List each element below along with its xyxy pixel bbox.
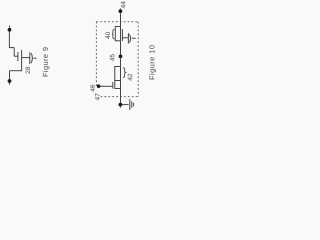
terminal stub top (Fig 9 input) <box>9 26 11 28</box>
svg-text:45: 45 <box>109 54 116 62</box>
svg-text:42: 42 <box>127 73 134 81</box>
terminal stub (node 44) <box>119 8 121 9</box>
svg-text:28: 28 <box>25 66 32 74</box>
stub below node 47 <box>119 106 121 107</box>
lead right of arc to box edge <box>132 37 136 39</box>
terminal stub bottom <box>9 83 11 85</box>
lead right of arc <box>33 57 36 59</box>
svg-text:47: 47 <box>95 93 102 101</box>
ground bar short <box>133 103 135 107</box>
node dot 47 <box>119 103 123 107</box>
gate lead of transistor 28 <box>14 55 17 57</box>
wire from transistor 40 down to node 45 <box>120 41 122 55</box>
svg-text:40: 40 <box>105 31 112 39</box>
label brace for 40 <box>112 29 115 39</box>
svg-text:Figure 9: Figure 9 <box>41 47 50 77</box>
lead from channel to plate <box>22 57 30 59</box>
node dot 46 <box>97 84 101 88</box>
wire left at bottom <box>10 70 23 72</box>
wire from top terminal down <box>8 32 10 48</box>
wire from node 45 down to transistor 42 <box>120 58 122 66</box>
transistor 40 gate bar <box>121 29 123 41</box>
transistor 42 internal rung <box>115 80 121 82</box>
dashed box top edge (Fig 10 chip boundary) <box>96 21 138 23</box>
transistor 28 channel bar <box>21 50 23 64</box>
dashed box bottom edge <box>101 96 139 98</box>
wire down to bottom terminal <box>9 71 11 79</box>
transistor 28 control-gate bar <box>17 52 19 61</box>
wire jog right <box>9 47 14 49</box>
svg-text:46: 46 <box>90 84 97 92</box>
wire jog down <box>13 48 15 57</box>
node dot 44 <box>119 9 123 13</box>
svg-text:Figure 10: Figure 10 <box>147 45 156 80</box>
source wire of transistor 42 down <box>120 81 122 104</box>
ground bar medium <box>131 101 133 108</box>
label brace for 42 <box>123 68 126 78</box>
ground bar long <box>129 99 131 110</box>
node dot 45 <box>119 55 123 59</box>
dashed box left edge <box>95 22 97 87</box>
svg-text:44: 44 <box>120 1 127 9</box>
wire from node 47 to ground <box>122 104 128 106</box>
plate bar (transistor 40) <box>127 33 129 44</box>
transistor 42 body rectangle <box>115 67 121 89</box>
wire from 44 down to transistor 40 <box>120 13 122 26</box>
plate bar (Fig 9) <box>29 52 31 64</box>
transistor 40 body rectangle <box>115 27 120 41</box>
node dot (Fig 9 top terminal) <box>8 28 12 32</box>
node dot (Fig 9 bottom terminal) <box>8 79 12 83</box>
transistor 40 gate tick <box>122 37 128 39</box>
dashed box right edge <box>137 22 139 97</box>
gate wire from terminal 46 <box>99 85 113 87</box>
source wire down from channel <box>21 64 23 71</box>
arc electrode (Fig 9) <box>31 53 32 63</box>
arc electrode (transistor 40) <box>129 35 130 43</box>
transistor 42 gate bar <box>112 82 114 89</box>
